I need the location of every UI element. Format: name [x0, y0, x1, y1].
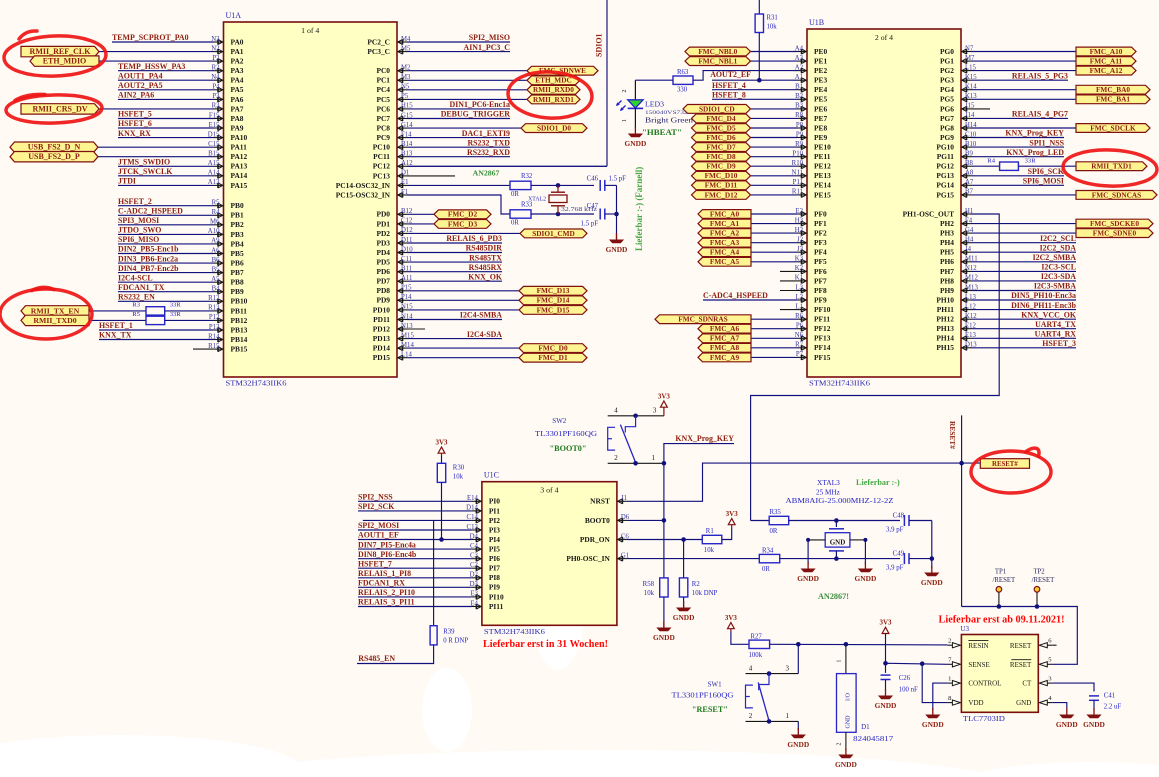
pin PE5 (B2) of U1B	[795, 93, 827, 104]
svg-text:DIN1_PC6-Enc1a: DIN1_PC6-Enc1a	[450, 100, 511, 109]
pin PC8 (G14) of U1A	[376, 122, 413, 133]
pin PI0 (E14) of U1C	[467, 495, 500, 506]
pin PI10 (E3) of U1C	[470, 591, 504, 602]
svg-text:FMC_A7: FMC_A7	[710, 334, 740, 343]
pin PF1 (H3) of U1B	[795, 217, 827, 228]
svg-text:PF7: PF7	[814, 276, 827, 285]
junction XTAL3 case left	[806, 538, 810, 542]
wire stub U3 RESET6	[1052, 644, 1056, 646]
svg-text:SPI2_MISO: SPI2_MISO	[469, 33, 510, 42]
svg-text:PF10: PF10	[814, 305, 831, 314]
wire net AOUT2_PA5	[118, 81, 214, 90]
net flag FMC_A5	[698, 257, 797, 266]
varistor D1 824045817	[837, 659, 894, 745]
net flag FMC_D7	[692, 143, 798, 152]
svg-text:FMC_D5: FMC_D5	[706, 123, 736, 132]
svg-text:PH10: PH10	[936, 295, 954, 304]
svg-text:2 of 4: 2 of 4	[875, 33, 893, 42]
svg-text:PH7: PH7	[940, 267, 954, 276]
svg-text:GNDD: GNDD	[835, 760, 857, 769]
wire net HSFET_7	[358, 559, 472, 568]
svg-text:PD9: PD9	[376, 296, 390, 305]
svg-text:PA14: PA14	[231, 171, 248, 180]
svg-text:C-ADC4_HSPEED: C-ADC4_HSPEED	[703, 291, 768, 300]
svg-text:DIN6_PH11-Enc3b: DIN6_PH11-Enc3b	[1011, 301, 1076, 310]
svg-text:FMC_D13: FMC_D13	[537, 286, 570, 295]
svg-text:CT: CT	[1022, 680, 1032, 688]
pin PB6 (B6) of U1A	[212, 257, 244, 268]
junction XTAL3 top	[834, 518, 839, 523]
resistor R58 10k	[643, 578, 668, 597]
wire PH0-OSC_IN to R34	[627, 558, 759, 560]
pin PF0 (E2) of U1B	[795, 208, 827, 219]
svg-text:PC3_C: PC3_C	[367, 47, 390, 56]
svg-text:DIN2_PB5-Enc1b: DIN2_PB5-Enc1b	[118, 245, 179, 254]
svg-text:3: 3	[785, 664, 789, 672]
pin PE2 (A2) of U1B	[795, 64, 828, 75]
wire PDR_ON from U1C	[627, 539, 684, 541]
svg-text:I2C2_SDA: I2C2_SDA	[1040, 243, 1077, 252]
svg-text:U1A: U1A	[226, 11, 242, 20]
svg-text:PA0: PA0	[231, 37, 244, 46]
svg-text:GNDD: GNDD	[921, 578, 943, 587]
pin PC13 (D1) of U1A	[373, 170, 410, 181]
svg-text:C47: C47	[587, 203, 599, 210]
svg-text:AN2867!: AN2867!	[818, 592, 849, 601]
junction XTAL3 bottom	[834, 556, 839, 561]
net flag FMC_SDNWE	[407, 66, 598, 75]
wire net FDCAN1_TX	[118, 283, 214, 292]
svg-text:1: 1	[785, 712, 789, 720]
wire R63 to PE2	[693, 71, 793, 81]
svg-text:FMC_D6: FMC_D6	[706, 133, 736, 142]
svg-text:TEMP_HSSW_PA3: TEMP_HSSW_PA3	[118, 62, 185, 71]
svg-text:RMII_RXD0: RMII_RXD0	[533, 85, 574, 94]
junction R27/D1	[844, 642, 849, 647]
pin PE12 (R10) of U1B	[792, 160, 831, 171]
wire net KNX_TX	[99, 331, 214, 340]
wire net I2C2_SDA	[971, 243, 1076, 252]
svg-text:PA13: PA13	[231, 162, 248, 171]
pin SENSE (7) of U3	[947, 657, 989, 669]
svg-text:PA8: PA8	[231, 114, 244, 123]
pin PD6 (B11) of U1A	[376, 266, 412, 277]
svg-text:4: 4	[614, 406, 618, 414]
wire net RELAIS_1_PI8	[358, 569, 472, 578]
wire net C-ADC2_HSPEED	[118, 207, 214, 216]
wire net SDIO1 from PC12 up to sheet edge	[407, 0, 607, 166]
svg-text:1.5 pF: 1.5 pF	[609, 175, 627, 182]
net flag FMC_A11	[971, 57, 1136, 66]
svg-text:PC2_C: PC2_C	[367, 37, 390, 46]
pin PC9 (F14) of U1A	[376, 131, 412, 142]
svg-text:1: 1	[651, 454, 655, 462]
svg-text:CONTROL: CONTROL	[968, 680, 1001, 688]
wire net RELAIS_6_PD3	[407, 234, 502, 243]
pin PI5 (C4) of U1C	[470, 543, 500, 554]
pin PI8 (D2) of U1C	[470, 572, 501, 583]
pin PC14-OSC32_IN (E1) of U1A	[336, 179, 409, 190]
svg-text:U1C: U1C	[484, 471, 499, 480]
wire net DIN5_PH10-Enc3a	[971, 291, 1076, 300]
svg-text:R32: R32	[521, 173, 533, 180]
svg-text:PF9: PF9	[814, 295, 827, 304]
svg-text:PI9: PI9	[489, 583, 500, 592]
annotation circle RMII_TXD1	[1062, 148, 1157, 187]
pin PI1 (D14) of U1C	[466, 505, 500, 516]
svg-text:PE5: PE5	[814, 95, 827, 104]
svg-text:DIN8_PI6-Enc4b: DIN8_PI6-Enc4b	[358, 550, 417, 559]
pin PA1 (N2) of U1A	[211, 45, 244, 56]
svg-text:PH15: PH15	[936, 343, 954, 352]
svg-text:PC4: PC4	[376, 85, 390, 94]
svg-text:UART4_RX: UART4_RX	[1035, 330, 1077, 339]
net flag FMC_A12	[971, 66, 1136, 75]
svg-text:PE8: PE8	[814, 123, 827, 132]
svg-text:PD1: PD1	[376, 219, 390, 228]
wire net SPI2_NSS	[358, 493, 472, 502]
wire net DEBUG_TRIGGER	[407, 110, 510, 119]
pin PI3 (C13) of U1C	[467, 524, 501, 535]
pin PI2 (C14) of U1C	[467, 514, 501, 525]
svg-text:10k: 10k	[767, 24, 778, 31]
svg-text:1.5 pF: 1.5 pF	[581, 221, 599, 228]
svg-text:330: 330	[677, 87, 688, 94]
svg-text:1: 1	[622, 119, 628, 122]
pin PF2 (H2) of U1B	[795, 227, 827, 238]
svg-text:FMC_SDCKE0: FMC_SDCKE0	[1090, 219, 1139, 228]
wire D1 to RESIN	[845, 644, 847, 673]
svg-text:Lieferbar :-): Lieferbar :-)	[856, 478, 900, 487]
net flag ETH_MDC	[407, 76, 580, 85]
ground GNDD of LED3	[625, 127, 647, 148]
svg-text:PB10: PB10	[231, 297, 248, 306]
IC U1C STM32H743IIK6	[482, 471, 617, 636]
pin NRST (J1) of U1C	[590, 495, 627, 506]
pin PA0 (N3) of U1A	[211, 36, 244, 47]
wire net I2C3-SCL	[971, 263, 1076, 272]
wire net RS232_RXD	[407, 148, 510, 157]
svg-text:RESIN: RESIN	[968, 642, 988, 650]
pin CONTROL (1) of U3	[947, 675, 1001, 687]
pin PC1 (M3) of U1A	[376, 74, 411, 85]
pin PE6 (B3) of U1B	[795, 103, 827, 114]
net flag RMII_RXD1	[407, 95, 580, 104]
svg-text:NRST: NRST	[590, 497, 610, 506]
pin PC5 (P5) of U1A	[376, 93, 408, 104]
pin PDR_ON (C6) of U1C	[580, 533, 630, 544]
svg-text:I/O: I/O	[846, 692, 852, 701]
power 3V3 for SW2	[658, 392, 671, 410]
svg-text:C49: C49	[893, 550, 905, 557]
svg-text:PF13: PF13	[814, 334, 831, 343]
svg-text:PE12: PE12	[814, 162, 831, 171]
pin PE15 (R11) of U1B	[792, 189, 831, 200]
wire net HSFET_1	[99, 321, 214, 330]
svg-text:GND: GND	[846, 715, 852, 729]
wire PH1-OSC_OUT down to crystal	[751, 214, 1000, 521]
svg-text:Lieferbar erst in 31 Wochen!: Lieferbar erst in 31 Wochen!	[483, 639, 608, 650]
pin PH12 (K12) of U1B	[936, 313, 977, 324]
svg-text:SPI6_MISO: SPI6_MISO	[118, 235, 159, 244]
net flag RMII_REF_CLK	[21, 46, 214, 56]
pin PB8 (A5) of U1A	[211, 276, 244, 287]
wire net RS485_EN	[357, 645, 434, 664]
pin PD1 (C12) of U1A	[376, 218, 412, 229]
pin PE11 (P10) of U1B	[792, 151, 830, 162]
junction SW2 pin1 node	[662, 461, 667, 466]
svg-text:PD7: PD7	[376, 277, 390, 286]
svg-text:10k: 10k	[644, 590, 655, 597]
svg-text:AOUT2_PA5: AOUT2_PA5	[118, 81, 163, 90]
svg-text:R27: R27	[751, 634, 763, 641]
svg-text:2: 2	[749, 712, 753, 720]
net flag RMII_TX_EN	[21, 306, 146, 316]
wire PI2 drop to R39	[433, 520, 435, 625]
svg-text:RMII_TXD0: RMII_TXD0	[33, 316, 76, 325]
svg-text:FMC_NBL0: FMC_NBL0	[698, 47, 737, 56]
svg-text:FMC_BA1: FMC_BA1	[1096, 95, 1130, 104]
wire net KNX_OK	[407, 272, 503, 281]
svg-text:PB3: PB3	[231, 230, 244, 239]
pin PF3 (J2) of U1B	[797, 237, 827, 248]
svg-text:SPI6_MOSI: SPI6_MOSI	[1023, 177, 1064, 186]
pin GND (4) of U3	[1016, 695, 1052, 707]
svg-text:2.2 uF: 2.2 uF	[1104, 704, 1122, 711]
pin PE7 (R8) of U1B	[795, 112, 827, 123]
pin PH6 (M11) of U1B	[940, 256, 978, 267]
svg-text:PD11: PD11	[373, 315, 390, 324]
svg-text:XTAL2: XTAL2	[528, 197, 546, 203]
svg-text:0R: 0R	[770, 528, 778, 535]
pin PD12 (N13) of U1A	[373, 323, 414, 334]
ground GNDD of R58	[653, 597, 675, 642]
svg-text:PE15: PE15	[814, 190, 831, 199]
pin PG8 (H14) of U1B	[940, 122, 977, 133]
svg-text:HSFET_7: HSFET_7	[358, 559, 392, 568]
svg-text:PI4: PI4	[489, 535, 500, 544]
pin PI7 (C2) of U1C	[470, 562, 500, 573]
pin PB13 (P13) of U1A	[209, 324, 248, 335]
net flag FMC_SDNCAS	[971, 190, 1157, 199]
svg-text:33R: 33R	[170, 311, 182, 318]
svg-text:PA7: PA7	[231, 104, 244, 113]
crystal XTAL3 body with GND case	[808, 521, 865, 559]
wire net SPI6_MOSI	[971, 177, 1064, 186]
svg-text:PF12: PF12	[814, 324, 831, 333]
svg-text:FMC_D11: FMC_D11	[705, 181, 738, 190]
svg-text:R39: R39	[443, 629, 455, 636]
svg-text:RMII_TXD1: RMII_TXD1	[1091, 162, 1132, 171]
svg-text:C26: C26	[899, 675, 911, 682]
wire stub PD12	[407, 328, 425, 330]
svg-text:PI0: PI0	[489, 497, 500, 506]
svg-text:1 of 4: 1 of 4	[301, 26, 319, 35]
svg-text:HSFET_4: HSFET_4	[712, 81, 746, 90]
svg-text:GNDD: GNDD	[653, 633, 675, 642]
wire net RELAIS_5_PG3	[971, 71, 1068, 80]
pin PD2 (D12) of U1A	[376, 227, 413, 238]
svg-text:PE13: PE13	[814, 171, 831, 180]
svg-text:PC7: PC7	[376, 114, 390, 123]
capacitor C49 3.9pF	[886, 550, 932, 571]
pin PG14 (A7) of U1B	[936, 179, 974, 190]
net flag FMC_D0	[407, 344, 587, 353]
svg-text:PF15: PF15	[814, 353, 831, 362]
switch SW1 TL3301PF160QG RESET	[672, 664, 799, 723]
pin PH14 (E13) of U1B	[936, 332, 976, 343]
capacitor C41 2.2uF	[1089, 693, 1121, 711]
svg-text:C48: C48	[893, 512, 905, 519]
pin PH2 (F4) of U1B	[940, 217, 973, 228]
junction BOOT0/R58	[662, 518, 667, 523]
pin PA3 (R2) of U1A	[212, 65, 244, 76]
svg-text:PC0: PC0	[376, 66, 390, 75]
pin PF4 (J3) of U1B	[797, 246, 827, 257]
svg-text:RELAIS_5_PG3: RELAIS_5_PG3	[1012, 71, 1068, 80]
svg-text:PE2: PE2	[814, 66, 827, 75]
net flag FMC_D2	[407, 210, 491, 219]
svg-text:PF14: PF14	[814, 343, 831, 352]
svg-text:PE7: PE7	[814, 114, 827, 123]
net flag SDIO1_D0	[407, 124, 587, 133]
svg-text:AOUT1_PA4: AOUT1_PA4	[118, 71, 163, 80]
wire net RELAIS_2_PI10	[358, 588, 472, 597]
svg-text:R58: R58	[643, 581, 655, 588]
svg-text:RS232_EN: RS232_EN	[118, 293, 155, 302]
svg-text:PH4: PH4	[940, 238, 954, 247]
svg-text:2: 2	[948, 637, 951, 644]
wire net DIN6_PH11-Enc3b	[971, 301, 1077, 310]
pin PD4 (D10) of U1A	[376, 246, 413, 257]
pin PB2 (M6) of U1A	[210, 219, 244, 230]
pin PF14 (R7) of U1B	[795, 342, 831, 353]
svg-text:PA15: PA15	[231, 181, 248, 190]
wire net JTMS_SWDIO	[118, 158, 214, 167]
svg-text:C41: C41	[1104, 693, 1115, 700]
svg-text:PA6: PA6	[231, 95, 244, 104]
svg-text:FMC_SDNE0: FMC_SDNE0	[1093, 229, 1137, 238]
wire net DIN2_PB5-Enc1b	[118, 245, 214, 254]
wire PDR_ON to R1	[684, 539, 703, 541]
pin PC3_C (M5) of U1A	[367, 45, 411, 56]
wire net I2C4-SDA	[407, 330, 502, 339]
net flag FMC_A4	[698, 248, 797, 257]
svg-text:AN2867: AN2867	[473, 169, 500, 178]
wire net RELAIS_4_PG7	[971, 110, 1068, 119]
wire net KNX_Prog_KEY	[971, 129, 1064, 138]
wire net DIN1_PC6-Enc1a	[407, 100, 510, 109]
svg-text:3V3: 3V3	[725, 614, 738, 622]
svg-text:PI1: PI1	[489, 506, 500, 515]
wire R63 to LED3	[635, 79, 673, 81]
wire net HSFET_8	[712, 91, 797, 100]
wire U3 GND pin to ground	[1052, 703, 1067, 708]
svg-text:0 R DNP: 0 R DNP	[443, 638, 468, 645]
svg-text:HSFET_5: HSFET_5	[118, 110, 152, 119]
junction XTAL2 top	[556, 183, 561, 188]
wire net HSFET_6	[118, 119, 214, 128]
pin PH9 (M13) of U1B	[940, 284, 978, 295]
ground GNDD of CONTROL	[922, 708, 944, 729]
svg-text:RS485DIR: RS485DIR	[466, 244, 503, 253]
pin PI11 (E4) of U1C	[470, 600, 503, 611]
svg-text:Lieferbar :-) (Farnell): Lieferbar :-) (Farnell)	[634, 167, 644, 251]
svg-text:I2C4-SDA: I2C4-SDA	[467, 330, 502, 339]
svg-text:HSFET_2: HSFET_2	[118, 197, 152, 206]
svg-text:PB2: PB2	[231, 220, 244, 229]
svg-text:JTMS_SWDIO: JTMS_SWDIO	[118, 158, 170, 167]
ground GNDD of R2	[673, 597, 695, 622]
pin PG4 (K14) of U1B	[940, 84, 977, 95]
svg-text:PE6: PE6	[814, 104, 827, 113]
svg-text:PF6: PF6	[814, 267, 827, 276]
svg-text:RESET: RESET	[1010, 661, 1032, 669]
net flag FMC_SDNE0	[971, 229, 1153, 238]
svg-text:PB7: PB7	[231, 268, 244, 277]
pin PB10 (R12) of U1A	[208, 295, 247, 306]
capacitor C46 1.5pF	[587, 175, 626, 214]
wire stub PB15	[193, 348, 214, 350]
wire net RS232_EN	[118, 293, 214, 302]
svg-text:3,9 pF: 3,9 pF	[886, 565, 904, 572]
svg-text:GNDD: GNDD	[787, 740, 809, 749]
svg-text:PE14: PE14	[814, 181, 831, 190]
pin PB4 (A9) of U1A	[211, 238, 244, 249]
svg-text:USB_FS2_D_P: USB_FS2_D_P	[28, 152, 80, 161]
svg-text:FMC_D10: FMC_D10	[705, 171, 738, 180]
pin PD9 (P14) of U1A	[376, 294, 412, 305]
svg-text:3V3: 3V3	[435, 438, 448, 446]
svg-text:PE3: PE3	[814, 76, 827, 85]
wire C26 top	[885, 663, 887, 673]
svg-text:3: 3	[653, 406, 657, 414]
svg-text:TP1: TP1	[995, 569, 1006, 576]
pin PH4 (H4) of U1B	[940, 237, 974, 248]
svg-text:USB_FS2_D_N: USB_FS2_D_N	[28, 143, 81, 152]
pin PG6 (J15) of U1B	[940, 103, 975, 114]
power 3V3 at C26	[879, 618, 892, 663]
svg-text:SPI3_MOSI: SPI3_MOSI	[118, 216, 159, 225]
net flag FMC_D11	[692, 181, 798, 190]
svg-text:PG7: PG7	[940, 114, 954, 123]
svg-text:RELAIS_4_PG7: RELAIS_4_PG7	[1012, 110, 1068, 119]
svg-text:FMC_A1: FMC_A1	[710, 219, 740, 228]
wire net RS485TX	[407, 253, 502, 262]
svg-text:PD2: PD2	[376, 229, 390, 238]
svg-text:C-ADC2_HSPEED: C-ADC2_HSPEED	[118, 207, 183, 216]
pin PB14 (R14) of U1A	[208, 333, 247, 344]
svg-text:PB6: PB6	[231, 259, 244, 268]
svg-text:PC1: PC1	[376, 76, 390, 85]
svg-text:RESET: RESET	[1010, 642, 1032, 650]
power 3V3 for R30	[435, 438, 448, 456]
resistor R4 33R	[971, 158, 1076, 171]
svg-text:RESET#: RESET#	[992, 461, 1018, 468]
pin PI4 (D4) of U1C	[470, 533, 501, 544]
wire net KNX_Prog_LED	[971, 148, 1064, 157]
svg-text:PG4: PG4	[940, 85, 954, 94]
svg-text:DAC1_EXTI9: DAC1_EXTI9	[462, 129, 510, 138]
svg-text:GNDD: GNDD	[875, 701, 897, 710]
pin PG13 (A8) of U1B	[936, 170, 974, 181]
svg-text:PC12: PC12	[373, 162, 391, 171]
pin PH11 (L12) of U1B	[937, 303, 977, 314]
svg-text:GNDD: GNDD	[1083, 720, 1105, 729]
pin PB0 (R5) of U1A	[212, 200, 244, 211]
wire R35 to C48	[836, 520, 900, 522]
pin PH7 (N12) of U1B	[940, 265, 977, 276]
